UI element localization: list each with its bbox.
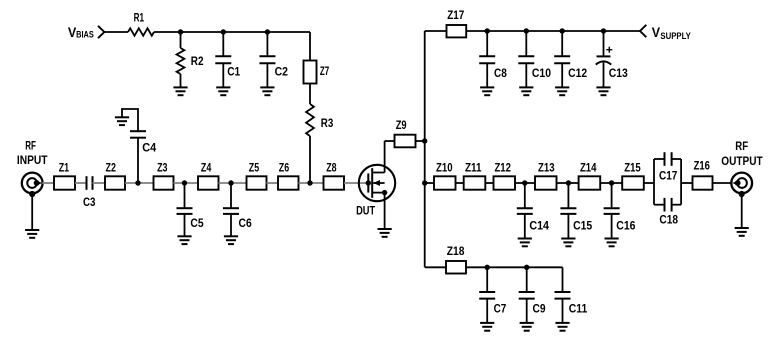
impedance Z11 (464, 176, 486, 189)
capacitor C10 (518, 56, 534, 63)
svg-text:C11: C11 (569, 301, 588, 315)
wire C8 lead (486, 31, 488, 56)
capacitor C2 (259, 56, 275, 63)
svg-text:SUPPLY: SUPPLY (660, 31, 691, 41)
svg-text:C9: C9 (533, 301, 546, 315)
DUT channel bar (371, 168, 373, 198)
capacitor C6 (223, 208, 239, 214)
wire C17 right lead (672, 158, 682, 160)
wire Z16 to output connector (713, 182, 732, 184)
junction at connector shield (29, 191, 35, 197)
Z17 label (447, 8, 464, 22)
wire DUT drain up (384, 141, 386, 173)
Z8 label (326, 160, 337, 174)
wire C16 to ground (611, 214, 613, 239)
C9 label (533, 301, 546, 315)
svg-text:C4: C4 (142, 141, 156, 155)
C1 label (227, 65, 240, 79)
svg-text:Z12: Z12 (494, 160, 511, 174)
C17 label (659, 169, 677, 183)
svg-text:C2: C2 (275, 65, 289, 79)
wire Z9 to rail (416, 140, 425, 142)
capacitor C18 (665, 198, 672, 212)
svg-text:C5: C5 (190, 216, 203, 230)
Z2 label (106, 160, 117, 174)
DUT body arrow (373, 180, 384, 186)
DUT source junction dot (382, 190, 387, 195)
wire C1 lead (222, 32, 224, 56)
capacitor C12 (554, 56, 570, 63)
impedance Z4 (198, 176, 219, 189)
wire C7 to ground (486, 299, 488, 323)
wire Z3 to Z4 (174, 182, 199, 184)
svg-text:Z10: Z10 (436, 160, 453, 174)
svg-text:Z16: Z16 (694, 159, 710, 173)
C15 label (573, 219, 592, 233)
wire C5 to ground (184, 214, 186, 236)
svg-text:DUT: DUT (356, 204, 375, 218)
wire C2 to ground (266, 63, 268, 87)
ground at C1 (216, 87, 230, 95)
VSUPPLY chevron (640, 25, 646, 37)
ground at R2 (173, 87, 187, 95)
capacitor C14 (517, 208, 533, 214)
svg-text:RF: RF (735, 139, 748, 153)
wire C8 to ground (486, 63, 488, 87)
junction node drain rail (422, 138, 427, 143)
svg-text:C3: C3 (83, 195, 96, 209)
wire Z2 to Z3 (125, 182, 154, 184)
DUT gate bar (367, 173, 369, 192)
ground at C11 (555, 323, 569, 331)
wire block to Z16 (681, 182, 692, 184)
VSUPPLY label (652, 25, 692, 41)
ground at C9 (520, 323, 534, 331)
wire C12 to ground (561, 63, 563, 87)
R2 label (191, 54, 204, 68)
C3 label (83, 195, 96, 209)
C10 label (532, 66, 551, 80)
svg-text:C14: C14 (529, 219, 549, 233)
svg-text:R1: R1 (134, 10, 145, 24)
capacitor C16 (604, 208, 620, 214)
wire Z12 to Z13 (515, 182, 535, 184)
svg-text:INPUT: INPUT (17, 153, 48, 167)
junction node C5 tap (182, 180, 187, 185)
ground at C4 hook (115, 117, 129, 125)
C4 label (142, 141, 156, 155)
junction node bias feed (307, 180, 312, 185)
Z11 label (465, 160, 482, 174)
svg-text:OUTPUT: OUTPUT (721, 154, 763, 168)
C8 label (494, 66, 507, 80)
wire node down to C5 (184, 183, 186, 208)
C11 label (569, 301, 588, 315)
svg-text:BIAS: BIAS (76, 29, 94, 39)
capacitor C4 (to hook ground) (130, 131, 146, 138)
wire C18 right lead (672, 204, 682, 206)
wire DUT source to ground (384, 193, 386, 229)
capacitor C7 (479, 292, 495, 299)
junction node C1 tap (221, 29, 226, 34)
wire rail corner to Z17 (425, 30, 447, 32)
DUT source stub (372, 192, 384, 194)
wire C12 lead (561, 31, 563, 56)
capacitor C11 (555, 292, 571, 299)
wire R2 to ground (180, 74, 182, 87)
ground at C10 (519, 87, 533, 95)
wire connector to Z1 (42, 182, 54, 184)
DUT label (356, 204, 375, 218)
junction node C7 tap (485, 265, 490, 270)
impedance Z14 (579, 176, 601, 189)
wire Z4 to Z5 (219, 182, 247, 184)
junction node C10 tap (524, 28, 529, 33)
DUT gate junction dot (366, 180, 371, 185)
ground at C5 (177, 236, 191, 244)
Z7 label (320, 64, 329, 78)
wire C11 to ground (562, 299, 564, 323)
C13 label (609, 66, 628, 80)
svg-text:C16: C16 (616, 219, 635, 233)
junction node C4 tap (135, 180, 140, 185)
capacitor C5 (177, 208, 193, 214)
impedance Z1 (54, 176, 75, 189)
wire node down to C15 (567, 183, 569, 208)
wire Z15 to C17/C18 block (644, 182, 654, 184)
Z6 label (279, 160, 290, 174)
C14 label (529, 219, 549, 233)
impedance Z15 (622, 176, 644, 189)
C12 label (568, 66, 587, 80)
wire C10 lead (525, 31, 527, 56)
Z13 label (538, 160, 555, 174)
Z15 label (624, 160, 641, 174)
svg-text:C17: C17 (659, 169, 677, 183)
resistor R1 (128, 28, 154, 35)
resistor R2 (177, 48, 185, 74)
Z5 label (249, 160, 260, 174)
svg-text:C6: C6 (239, 216, 252, 230)
wire C17/C18 left rail (653, 159, 655, 205)
svg-text:RF: RF (25, 138, 36, 152)
wire Z7 to R3 (309, 84, 311, 105)
capacitor C3 (series) (87, 176, 93, 190)
impedance Z13 (535, 176, 557, 189)
wire node up to C4 (137, 138, 139, 183)
wire node down to C6 (230, 183, 232, 208)
ground at C6 (224, 236, 238, 244)
junction node C13 tap (601, 28, 606, 33)
svg-text:Z18: Z18 (447, 244, 465, 258)
wire C10 to ground (525, 63, 527, 87)
svg-text:C1: C1 (227, 65, 240, 79)
RF INPUT coax connector J1 (22, 173, 43, 194)
wire C11 lead (562, 267, 564, 292)
wire Z17 to VSUPPLY (466, 30, 640, 32)
wire Z6 to Z8 (299, 182, 324, 184)
impedance Z6 (278, 176, 299, 189)
wire C18 left lead (654, 204, 665, 206)
impedance Z18 (446, 261, 466, 274)
wire Z11 to Z12 (485, 182, 493, 184)
DUT MOSFET body circle (359, 165, 395, 201)
junction node C9 tap (524, 265, 529, 270)
wire Z5 to Z6 (267, 182, 279, 184)
C13 plus sign (606, 47, 612, 53)
C5 label (190, 216, 203, 230)
ground at C7 (480, 323, 494, 331)
wire rail corner to Z18 (425, 266, 446, 268)
R3 label (321, 116, 334, 130)
wire C17 left lead (654, 158, 665, 160)
junction node C16 tap (609, 180, 614, 185)
wire Z1 to C3 (75, 182, 87, 184)
C2 label (275, 65, 289, 79)
wire output tap to Z10 (425, 182, 434, 184)
svg-text:Z6: Z6 (279, 160, 290, 174)
RF OUTPUT label (721, 139, 763, 168)
ground at C8 (480, 87, 494, 95)
ground at C15 (561, 239, 575, 247)
impedance Z12 (494, 176, 516, 189)
svg-text:C8: C8 (494, 66, 507, 80)
svg-text:Z17: Z17 (447, 8, 464, 22)
Z1 label (59, 160, 70, 174)
svg-text:C18: C18 (659, 212, 678, 226)
wire Z13 to Z14 (557, 182, 579, 184)
impedance Z17 (447, 25, 467, 37)
resistor R3 (306, 104, 314, 136)
svg-text:V: V (652, 25, 661, 40)
junction node R2 tap (178, 29, 183, 34)
wire C7 lead (486, 267, 488, 292)
DUT drain stub (372, 172, 384, 174)
svg-text:C15: C15 (573, 219, 592, 233)
ground at C2 (260, 87, 274, 95)
capacitor C1 (215, 56, 231, 63)
wire R1 to bias corner (154, 31, 310, 33)
impedance Z7 (304, 61, 317, 84)
svg-text:Z4: Z4 (201, 160, 212, 174)
wire C3 to Z2 (93, 182, 106, 184)
RF INPUT label (17, 138, 48, 167)
svg-text:C13: C13 (609, 66, 628, 80)
wire C15 to ground (567, 214, 569, 239)
svg-text:Z5: Z5 (249, 160, 260, 174)
impedance Z8 (324, 176, 345, 189)
ground at RF output (735, 228, 749, 236)
svg-text:C12: C12 (568, 66, 587, 80)
junction node C12 tap (560, 28, 565, 33)
C16 label (616, 219, 635, 233)
Z18 label (447, 244, 465, 258)
wire C9 to ground (526, 299, 528, 323)
wire C17/C18 right rail (680, 159, 682, 205)
VBIAS label (68, 25, 94, 40)
wire node down to C14 (524, 183, 526, 208)
Z12 label (494, 160, 511, 174)
impedance Z10 (434, 176, 456, 189)
R1 label (134, 10, 145, 24)
capacitor C15 (560, 208, 576, 214)
wire C9 lead (526, 267, 528, 292)
ground at C16 (605, 239, 619, 247)
junction node C15 tap (566, 180, 571, 185)
svg-text:C7: C7 (494, 301, 507, 315)
svg-text:R3: R3 (321, 116, 334, 130)
svg-text:Z14: Z14 (580, 160, 597, 174)
impedance Z2 (105, 176, 125, 189)
svg-text:Z11: Z11 (465, 160, 482, 174)
impedance Z16 (693, 176, 713, 189)
impedance Z5 (247, 176, 267, 189)
junction node C14 tap (522, 180, 527, 185)
junction node output tap (422, 180, 427, 185)
junction node C6 tap (228, 180, 233, 185)
capacitor C8 (479, 56, 495, 63)
svg-text:Z8: Z8 (326, 160, 337, 174)
wire vertical rail (424, 31, 426, 267)
capacitor C17 (665, 152, 672, 166)
wire C13 lead (603, 31, 605, 56)
svg-text:Z15: Z15 (624, 160, 641, 174)
capacitor C13 (polarized) (596, 56, 611, 64)
wire Z10 to Z11 (456, 182, 464, 184)
wire C1 to ground (222, 63, 224, 87)
C18 label (659, 212, 678, 226)
wire Z14 to Z15 (600, 182, 622, 184)
wire R3 to main line (309, 136, 311, 183)
ground at C13 (596, 87, 610, 95)
wire C6 to ground (230, 214, 232, 236)
C7 label (494, 301, 507, 315)
wire Z18 to C11 (466, 266, 563, 268)
wire connector to ground (31, 194, 33, 230)
VBIAS input chevron (98, 26, 104, 38)
impedance Z9 (395, 135, 416, 148)
svg-text:Z9: Z9 (396, 118, 407, 132)
Z10 label (436, 160, 453, 174)
ground at DUT source (378, 229, 392, 237)
capacitor C9 (519, 292, 535, 299)
svg-text:R2: R2 (191, 54, 204, 68)
junction node C2 tap (265, 29, 270, 34)
wire C13 to ground (603, 62, 605, 87)
Z4 label (201, 160, 212, 174)
wire VBIAS to R1 (104, 31, 128, 33)
wire C14 to ground (524, 214, 526, 239)
svg-text:C10: C10 (532, 66, 551, 80)
svg-text:Z13: Z13 (538, 160, 555, 174)
Z16 label (694, 159, 710, 173)
wire Z8 to DUT gate (344, 182, 368, 184)
impedance Z3 (154, 176, 174, 189)
ground at C12 (555, 87, 569, 95)
wire C4 top hook (122, 109, 138, 131)
svg-text:Z1: Z1 (59, 160, 70, 174)
ground at C14 (518, 239, 532, 247)
wire C2 lead (266, 32, 268, 56)
ground at RF input (25, 230, 39, 238)
wire output connector to ground (741, 194, 743, 228)
wire drain to Z9 (385, 140, 395, 142)
Z9 label (396, 118, 407, 132)
Z14 label (580, 160, 597, 174)
junction node C8 tap (485, 28, 490, 33)
Z3 label (157, 160, 168, 174)
wire bias corner down to Z7 (309, 32, 311, 61)
svg-text:Z7: Z7 (320, 64, 329, 78)
svg-text:Z3: Z3 (157, 160, 168, 174)
C6 label (239, 216, 252, 230)
RF OUTPUT coax connector J2 (731, 173, 752, 194)
wire node down to C16 (611, 183, 613, 208)
svg-text:Z2: Z2 (106, 160, 117, 174)
wire R2 lead (180, 32, 182, 48)
junction at output connector shield (739, 191, 745, 197)
